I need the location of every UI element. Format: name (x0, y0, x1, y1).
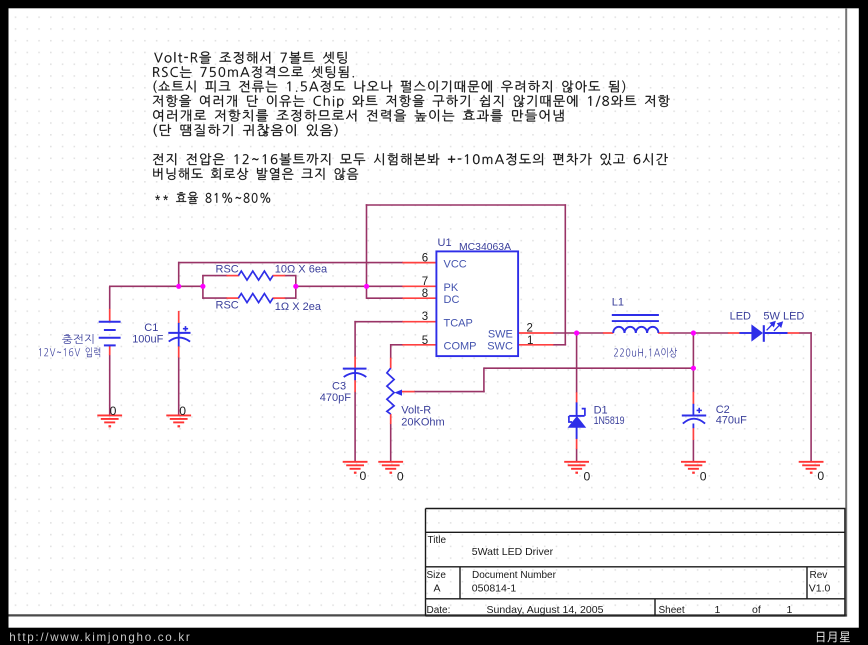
pin D1 cathode (576, 392, 578, 403)
resistor Volt-R 20KOhm potentiometer (387, 368, 394, 414)
pin 8 DC stub (402, 297, 437, 299)
svg-text:0: 0 (584, 469, 591, 483)
svg-text:470pF: 470pF (320, 392, 351, 404)
junction LED node (691, 330, 696, 335)
LED light arrows (767, 322, 783, 331)
wire to pin 6 VCC (178, 262, 403, 264)
pin 1 SWC stub (518, 344, 554, 346)
junction RSC left at input rail (200, 284, 205, 289)
resistor RSC 1ohm x2 bottom (238, 294, 273, 303)
svg-text:V1.0: V1.0 (809, 583, 831, 595)
pin RSC top left (226, 275, 238, 277)
wire feedback from C2 node (484, 367, 694, 369)
title block frame (426, 509, 846, 616)
svg-text:LED: LED (730, 311, 751, 323)
wire SWE output node to L1 (553, 332, 604, 334)
wire RSC box right side (295, 275, 297, 287)
pin C3 bottom (354, 380, 356, 392)
svg-text:Date:: Date: (427, 605, 451, 616)
potentiometer wiper arrow (394, 390, 402, 396)
pin C3 top (354, 356, 356, 369)
ground D1 (564, 462, 589, 469)
pin LED cathode (787, 332, 800, 334)
ground C3 (343, 462, 368, 469)
wire COMP down to Volt-R (390, 344, 392, 358)
wire from RSC top resistor (284, 275, 296, 277)
note line 1 (154, 52, 346, 64)
note line 9 (155, 192, 270, 204)
svg-text:7: 7 (422, 276, 428, 288)
pin RSC bottom left (226, 297, 238, 299)
note line 3 (154, 81, 625, 93)
svg-text:Sheet: Sheet (659, 605, 685, 616)
wire pot wiper feedback (414, 391, 485, 393)
pin battery negative (109, 345, 111, 355)
junction SWE output node (574, 330, 579, 335)
page border bottom gray line (9, 614, 847, 616)
svg-text:L1: L1 (612, 297, 624, 309)
wire C3 to ground (354, 392, 356, 462)
svg-text:VCC: VCC (444, 258, 467, 270)
pin battery positive (109, 309, 111, 322)
ground LED (799, 462, 824, 469)
svg-text:C1: C1 (144, 322, 158, 334)
svg-text:RSC: RSC (216, 300, 239, 312)
wire feedback loop left drop (366, 204, 368, 299)
wire Volt-R to ground (390, 424, 392, 462)
svg-text:1: 1 (715, 604, 721, 616)
svg-text:Volt-R: Volt-R (401, 405, 431, 417)
svg-text:TCAP: TCAP (444, 317, 473, 329)
inductor L1 value 220uH,1A or more (614, 348, 677, 359)
svg-text:0: 0 (110, 404, 117, 418)
watermark 日月星 (817, 632, 850, 643)
svg-text:of: of (752, 604, 761, 616)
pin Volt-R wiper (401, 391, 414, 393)
wire to RSC top resistor (202, 275, 227, 277)
ground Volt-R (378, 462, 403, 469)
pin D1 anode (576, 439, 578, 450)
wire riser to VCC row (178, 262, 180, 287)
wire RSC box left side (202, 275, 204, 299)
wire C2 minus to ground (692, 440, 694, 462)
wire RSC network to pin 7 PK (296, 285, 403, 287)
capacitor C1 100uF polarized (168, 323, 190, 347)
note line 7 (153, 153, 668, 165)
wire battery minus to ground (109, 355, 111, 416)
svg-text:3: 3 (422, 311, 428, 323)
wire to pin 5 COMP (390, 344, 403, 346)
pin 3 TCAP stub (402, 321, 437, 323)
wire feedback loop top (366, 204, 566, 206)
svg-text:0: 0 (700, 469, 707, 483)
junction RSC right at input rail (293, 284, 298, 289)
wire right drop to ground (810, 332, 812, 461)
pin C2 positive (692, 392, 694, 404)
battery 충전지 12V~16V input (99, 322, 121, 346)
pin 2 SWE stub (518, 332, 554, 334)
wire RSC box right side lower (295, 286, 297, 299)
diode D1 1N5819 schottky (569, 402, 585, 439)
svg-text:SWC: SWC (487, 340, 513, 352)
svg-text:A: A (434, 583, 441, 595)
svg-text:0: 0 (397, 469, 404, 483)
wire D1 anode to ground (576, 449, 578, 462)
svg-text:2: 2 (527, 323, 533, 335)
pin L1 right (658, 332, 669, 334)
pin 5 COMP stub (402, 344, 437, 346)
pin C1 positive (178, 311, 180, 324)
svg-text:Size: Size (427, 570, 447, 581)
wire LED cathode to right drop (799, 332, 812, 334)
wire to pin 3 TCAP (354, 321, 403, 323)
resistor RSC 10ohm x6 top (238, 271, 273, 280)
svg-text:5: 5 (422, 335, 428, 347)
svg-text:100uF: 100uF (132, 334, 163, 346)
svg-text:C3: C3 (332, 381, 346, 393)
note line 2 (153, 66, 354, 78)
pin 6 VCC stub (402, 262, 437, 264)
svg-text:MC34063A: MC34063A (459, 241, 511, 253)
svg-text:Title: Title (428, 535, 447, 546)
pin Volt-R top (390, 358, 392, 369)
svg-text:20KOhm: 20KOhm (401, 417, 444, 429)
wire SWC link (553, 344, 566, 346)
junction C1 at input rail (176, 284, 181, 289)
svg-text:1Ω X 2ea: 1Ω X 2ea (275, 301, 322, 313)
pin LED anode (728, 332, 740, 334)
svg-text:http://www.kimjongho.co.kr: http://www.kimjongho.co.kr (9, 631, 191, 644)
wire C1 minus to ground (178, 357, 180, 416)
pin RSC top right (273, 275, 286, 277)
svg-text:1: 1 (527, 335, 533, 347)
svg-text:470uF: 470uF (716, 415, 747, 427)
svg-text:050814-1: 050814-1 (472, 583, 517, 595)
inductor L1 220uH (612, 315, 659, 333)
wire feedback loop right drop to SWC (564, 204, 566, 345)
junction C2 feedback node (691, 366, 696, 371)
svg-text:8: 8 (422, 288, 428, 300)
pin C1 negative (178, 346, 180, 358)
battery label line 2 (39, 347, 100, 357)
wire from RSC bottom resistor (284, 297, 296, 299)
wire input rail battery to RSC network (109, 285, 203, 287)
junction feedback at PK row (364, 284, 369, 289)
svg-text:U1: U1 (438, 237, 452, 249)
svg-text:6: 6 (422, 253, 428, 265)
note line 6 (154, 124, 338, 136)
pin Volt-R bottom (390, 414, 392, 424)
note line 4 (153, 95, 670, 108)
capacitor C2 470uF polarized (682, 404, 706, 428)
svg-text:Document Number: Document Number (472, 570, 557, 581)
svg-text:Rev: Rev (810, 570, 828, 581)
svg-text:10Ω X 6ea: 10Ω X 6ea (275, 263, 328, 275)
pin RSC bottom right (273, 297, 286, 299)
wire TCAP down to C3 (354, 321, 356, 357)
svg-text:COMP: COMP (444, 341, 477, 353)
svg-text:0: 0 (817, 469, 824, 483)
svg-text:Sunday, August 14, 2005: Sunday, August 14, 2005 (487, 605, 604, 616)
ground battery (97, 415, 122, 422)
svg-text:1: 1 (787, 604, 793, 616)
note line 8 (153, 168, 358, 180)
battery label line 1 (62, 334, 93, 344)
svg-text:DC: DC (444, 294, 460, 306)
wire output node down to D1 (576, 332, 578, 393)
svg-text:1N5819: 1N5819 (594, 415, 625, 427)
note line 5 (153, 109, 563, 121)
svg-text:0: 0 (360, 469, 367, 483)
ground C1 (166, 415, 191, 422)
wire feedback drop (483, 367, 485, 392)
svg-text:SWE: SWE (488, 328, 513, 340)
wire to pin 8 DC (367, 297, 404, 299)
svg-text:5Watt LED Driver: 5Watt LED Driver (472, 546, 554, 558)
svg-text:0: 0 (179, 404, 186, 418)
svg-text:PK: PK (444, 282, 459, 294)
wire to RSC bottom resistor (202, 297, 227, 299)
wire LED node down to C2 (692, 332, 694, 392)
op-amp U1 MC34063A body (436, 251, 518, 356)
ground C2 (681, 462, 706, 469)
capacitor C3 470pF (343, 369, 367, 381)
svg-text:5W LED: 5W LED (763, 311, 804, 323)
pin 7 PK stub (402, 285, 437, 287)
svg-text:RSC: RSC (216, 263, 239, 275)
LED D2 5W (739, 325, 787, 342)
wire battery plus to input rail (109, 286, 111, 309)
pin C2 negative (692, 428, 694, 440)
wire L1 to LED node (669, 332, 729, 334)
page border right gray line (845, 8, 847, 616)
pin L1 left (603, 332, 614, 334)
